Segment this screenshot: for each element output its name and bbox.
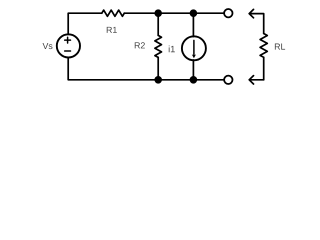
- wire: [192, 60, 194, 80]
- node junction dot: [190, 9, 198, 17]
- voltage source Vs: [57, 34, 80, 57]
- node junction dot: [154, 9, 162, 17]
- label R1: [107, 27, 117, 33]
- arrow: [249, 9, 264, 33]
- wire: [192, 13, 194, 36]
- wire: [263, 57, 265, 80]
- label RL: [275, 44, 285, 50]
- resistor R1: [102, 10, 125, 16]
- label R2: [135, 42, 145, 48]
- terminal a: [224, 9, 232, 17]
- resistor R2: [155, 35, 162, 57]
- label i1: [169, 46, 175, 53]
- arrow: [249, 76, 264, 84]
- wire: [157, 57, 159, 79]
- node junction dot: [190, 76, 198, 84]
- wire: [157, 13, 159, 35]
- node junction dot: [154, 76, 162, 84]
- resistor RL: [260, 34, 267, 58]
- current source i1: [182, 36, 206, 60]
- wire: [124, 12, 224, 14]
- terminal b: [224, 76, 232, 84]
- label Vs: [43, 43, 53, 49]
- wire: [68, 57, 224, 79]
- wire: [68, 13, 102, 34]
